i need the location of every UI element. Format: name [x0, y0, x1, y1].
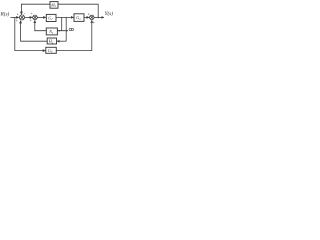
block G1 (forward path) — [46, 14, 56, 21]
svg-text:Y(s): Y(s) — [105, 10, 114, 17]
summing junction S1 — [19, 15, 24, 20]
svg-text:R(s): R(s) — [0, 10, 10, 17]
node B: output pickoff junction dot — [97, 17, 99, 19]
svg-text:+: + — [31, 12, 33, 16]
wire: G3 block output right and up into summing junction S3 — [56, 20, 92, 50]
block M1 (top feedback path) — [50, 2, 58, 9]
svg-text:+: + — [88, 12, 90, 16]
block G2 (forward path) — [74, 14, 84, 22]
wire: H2 row from pickoff P2 corner leftward into block H2 — [57, 40, 66, 42]
wire: R(s) input to summing junction S1 — [10, 16, 19, 18]
arrowhead into block N1 right side pointing left — [58, 30, 60, 32]
wire: summing junction S1 to summing junction S2 — [25, 16, 33, 18]
arrowhead on N1 row pointing right at vertical P2 — [66, 30, 68, 32]
block H2 (feedback row 2) — [47, 38, 56, 44]
svg-text:+: + — [17, 12, 19, 16]
summing junction S2 — [33, 15, 38, 20]
block N1 (feedback row 1) — [46, 28, 57, 35]
wire: pickoff P1 down to N1 feedback row — [61, 17, 63, 30]
wire: output pickoff node B up across top through block M1 and down into S1 — [21, 4, 98, 17]
block G3 (bottom feedforward path) — [46, 47, 57, 53]
wire: H2 block output left and up into summing junction S1 — [21, 21, 48, 42]
summing junction S3 — [90, 15, 94, 19]
svg-text:+: + — [16, 19, 18, 23]
wire: summing junction S3 to output Y(s) — [94, 16, 104, 18]
wire: pickoff P2 down to H2 feedback row — [65, 17, 67, 41]
wire: N1 block output left and up into summing junction S2 — [35, 20, 47, 30]
wire: N1 row horizontal with right-pointing arrow end — [47, 30, 68, 32]
wire: block G2 to summing junction S3 — [84, 16, 89, 18]
ring glyphs label next to N1 row arrow — [69, 28, 73, 30]
svg-text:+: + — [93, 21, 95, 25]
wire: summing junction S2 to block G1 — [37, 16, 46, 18]
wire: input pickoff A down and right into block G3 — [15, 17, 46, 50]
wire: block G1 to block G2 — [56, 16, 74, 18]
svg-text:+: + — [30, 18, 32, 22]
svg-text:−: − — [24, 12, 26, 16]
